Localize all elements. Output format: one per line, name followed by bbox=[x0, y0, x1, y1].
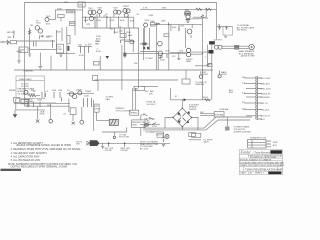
wire v3 drop4 bbox=[133, 17, 135, 28]
svg-text:450 WVDC: 450 WVDC bbox=[237, 30, 248, 32]
wire reverb vert2 bbox=[178, 24, 180, 31]
ground cathode bbox=[28, 52, 31, 57]
svg-text:RED-BLK: RED-BLK bbox=[261, 83, 271, 85]
wire AC line1 bbox=[143, 117, 252, 128]
wire grid stop bbox=[30, 28, 57, 49]
capacitor filter2 bbox=[225, 26, 228, 30]
svg-text:SW: SW bbox=[76, 144, 79, 146]
tube V3D bbox=[124, 13, 128, 17]
svg-text:.01: .01 bbox=[45, 91, 49, 93]
wire title div2 bbox=[276, 167, 278, 172]
wire tone link vertical bbox=[74, 13, 76, 36]
wire driver vert bbox=[185, 28, 187, 48]
wire input stage drop bbox=[18, 48, 20, 61]
svg-text:SLO-BLO: SLO-BLO bbox=[147, 104, 156, 106]
wire bridge bottom bbox=[181, 127, 183, 130]
resistor on grid vertical bbox=[29, 30, 31, 34]
wire trem row bbox=[14, 102, 70, 104]
svg-text:100K: 100K bbox=[120, 20, 125, 22]
node mixer box bbox=[120, 34, 126, 38]
wire hum bal in bbox=[200, 113, 214, 115]
capacitor C mid bbox=[123, 53, 126, 57]
svg-text:OUTPUT MEASURED AT SPKR TERMIN: OUTPUT MEASURED AT SPKR TERMINAL. 8 OHM bbox=[11, 165, 67, 168]
wire 6V6 out bbox=[191, 53, 203, 55]
node small box mid bbox=[93, 76, 98, 81]
svg-text:10K: 10K bbox=[119, 31, 123, 33]
svg-text:SPKR: SPKR bbox=[221, 74, 227, 76]
wire bottom-left border bbox=[25, 105, 70, 107]
component power switch bbox=[144, 114, 154, 120]
svg-text:.022: .022 bbox=[86, 24, 91, 26]
wire footsw main bbox=[100, 142, 171, 144]
wire title rule2 bbox=[239, 157, 282, 159]
wire grid stop b bbox=[38, 35, 40, 39]
svg-text:100K: 100K bbox=[46, 24, 51, 26]
svg-text:1500: 1500 bbox=[165, 50, 170, 52]
svg-text:JACKS 8 OHM: JACKS 8 OHM bbox=[241, 55, 255, 58]
wire T3 stub4 bbox=[244, 93, 256, 95]
svg-text:.02: .02 bbox=[105, 14, 109, 16]
svg-text:SW: SW bbox=[200, 112, 203, 114]
svg-text:250K: 250K bbox=[126, 32, 131, 34]
node title border bbox=[239, 150, 282, 175]
svg-text:GRN-BLK: GRN-BLK bbox=[261, 97, 271, 99]
wire footsw circle drop bbox=[113, 132, 115, 136]
svg-text:AC 117V: AC 117V bbox=[140, 148, 149, 151]
resistor reverb line bbox=[156, 23, 160, 24]
wire trem verticals up bbox=[68, 99, 70, 113]
wire v3 link bbox=[121, 11, 123, 14]
resistor B+ drop2 bbox=[206, 8, 212, 10]
svg-text:TREBLE: TREBLE bbox=[67, 11, 76, 13]
svg-text:GRN: GRN bbox=[273, 142, 278, 144]
capacitor coupling bbox=[106, 16, 108, 19]
component switch bbox=[152, 123, 156, 125]
wire mid box drop bbox=[99, 56, 101, 70]
wire title rule5 bbox=[239, 166, 282, 168]
tube V1 second stage bbox=[45, 18, 49, 22]
svg-text:SPEED: SPEED bbox=[9, 90, 17, 92]
wire footsw fan bbox=[86, 141, 90, 145]
node speaker connector box bbox=[248, 140, 267, 149]
wire rev mix vert1 bbox=[143, 28, 145, 60]
node mid box left bbox=[94, 61, 100, 65]
svg-text:REVERB: REVERB bbox=[140, 43, 149, 45]
tube V2C bbox=[98, 10, 102, 14]
svg-text:GRN 6.3V: GRN 6.3V bbox=[261, 93, 271, 95]
wire rev mix vert3 bbox=[168, 24, 170, 70]
svg-text:7025: 7025 bbox=[36, 23, 41, 25]
svg-text:56K: 56K bbox=[149, 94, 153, 96]
svg-text:TREM: TREM bbox=[85, 91, 91, 93]
svg-text:AC SW: AC SW bbox=[143, 121, 150, 124]
tube V3A bbox=[114, 10, 118, 14]
svg-text:250K: 250K bbox=[57, 49, 62, 51]
svg-text:.047: .047 bbox=[46, 37, 51, 39]
wire hum bal in2 bbox=[200, 115, 214, 117]
svg-text:1N4003: 1N4003 bbox=[189, 109, 197, 111]
wire title rule3 bbox=[239, 160, 282, 162]
capacitor deathcap bbox=[162, 132, 165, 142]
svg-text:220K: 220K bbox=[161, 21, 166, 23]
resistor 6V6 grid2 bbox=[166, 54, 168, 58]
wire speed drop2 bbox=[135, 88, 137, 110]
svg-text:CPLR: CPLR bbox=[94, 109, 100, 111]
node title black box bottom bbox=[268, 172, 281, 175]
svg-text:BLK: BLK bbox=[261, 119, 266, 121]
transformer T3 bumps bbox=[255, 76, 258, 119]
component fuse bbox=[145, 125, 151, 129]
resistor row1 bbox=[128, 34, 132, 36]
svg-text:470K: 470K bbox=[110, 20, 115, 22]
wire title rule4 bbox=[239, 163, 282, 165]
resistor trem vert bbox=[41, 92, 43, 98]
svg-text:INPUT: INPUT bbox=[0, 42, 7, 44]
svg-text:BLK: BLK bbox=[273, 145, 278, 147]
wire speaker line1 bbox=[222, 45, 249, 47]
svg-text:12AX7: 12AX7 bbox=[76, 89, 83, 92]
junction dots misc bbox=[156, 24, 203, 101]
tube V5 reverb driver bbox=[186, 15, 190, 19]
svg-text:REV: REV bbox=[151, 21, 156, 23]
wire OT bottom bbox=[208, 62, 212, 64]
wire reverb verticals bbox=[170, 24, 172, 31]
svg-text:5. ALL VOLTAGES DC 20%: 5. ALL VOLTAGES DC 20% bbox=[11, 159, 41, 162]
svg-text:DATE: DATE bbox=[241, 172, 247, 175]
wire opto drop bbox=[97, 112, 110, 120]
wire v3 drops bbox=[113, 14, 115, 17]
wire pi vert2 bbox=[157, 54, 159, 70]
wire vert c bbox=[129, 28, 131, 40]
wire vol long vertical bbox=[66, 27, 68, 70]
svg-text:FUSE: FUSE bbox=[143, 126, 149, 128]
resistor hang1 bbox=[85, 17, 87, 22]
wire v4 vert bbox=[155, 24, 157, 70]
transformer T3 winding bbox=[256, 76, 258, 120]
wire T3 stub8 bbox=[246, 115, 256, 117]
node vib channel label box bbox=[78, 2, 85, 7]
wire B+ right bbox=[182, 99, 211, 101]
wire reverb bus bbox=[150, 23, 202, 25]
svg-text:470K: 470K bbox=[96, 51, 101, 53]
wire top border bbox=[25, 3, 217, 107]
wire title rule1 bbox=[239, 153, 282, 155]
wire intensity top bbox=[140, 115, 142, 120]
tube V4A recovery bbox=[158, 41, 163, 46]
capacitor C3 electrolytic bbox=[67, 46, 69, 51]
resistor chain b bbox=[33, 102, 35, 108]
capacitor fs2 bbox=[123, 142, 126, 147]
svg-text:7025: 7025 bbox=[97, 7, 102, 9]
svg-text:YEL-BLK: YEL-BLK bbox=[261, 109, 270, 111]
svg-text:1M: 1M bbox=[30, 25, 33, 27]
svg-text:TWIN REVERB AA769 AMP: TWIN REVERB AA769 AMP bbox=[245, 167, 283, 171]
resistor mid3 bbox=[88, 46, 90, 53]
wire tone row verticals bbox=[113, 28, 115, 34]
wire line132 bbox=[145, 131, 163, 133]
wire row h bbox=[125, 41, 136, 43]
wire T3 stub1 bbox=[244, 77, 256, 79]
wire drop 110 bbox=[109, 17, 111, 28]
wire drop 107 bbox=[106, 19, 108, 28]
svg-text:.02: .02 bbox=[136, 14, 140, 16]
svg-text:ON SW: ON SW bbox=[105, 150, 112, 152]
transformer output T1 core bbox=[209, 41, 215, 44]
resistor R2 bbox=[13, 35, 15, 38]
wire v2b cathode bbox=[99, 14, 101, 18]
node vib jack box bbox=[70, 108, 76, 115]
svg-text:PAN: PAN bbox=[106, 98, 111, 101]
capacitor rev mix2 bbox=[147, 47, 149, 50]
node fs dot2 bbox=[124, 143, 125, 144]
wire mid bus y80 bbox=[95, 79, 178, 81]
svg-text:4. ALL CAPACITORS 600V: 4. ALL CAPACITORS 600V bbox=[11, 155, 40, 158]
wire speaker line2 bbox=[222, 47, 249, 49]
node opto box bbox=[94, 104, 99, 112]
svg-text:BLK 115V: BLK 115V bbox=[261, 116, 271, 118]
node intensity box bbox=[132, 120, 145, 128]
svg-text:PAIR: PAIR bbox=[186, 60, 191, 63]
ground trem X2 bbox=[72, 122, 75, 125]
resistor line132 bbox=[150, 131, 154, 133]
svg-text:470: 470 bbox=[205, 18, 209, 20]
resistor chain a bbox=[27, 102, 29, 108]
svg-text:VOLTAGES READ WITH VTVM AND MA: VOLTAGES READ WITH VTVM AND MAY VARY 20% bbox=[240, 161, 284, 164]
svg-text:TO REV: TO REV bbox=[145, 58, 153, 60]
resistor speaker2 bbox=[235, 48, 239, 50]
svg-text:.02: .02 bbox=[63, 113, 67, 115]
svg-text:FUSE 2A: FUSE 2A bbox=[146, 118, 155, 121]
ground footsw bbox=[101, 143, 104, 148]
wire trio drop bbox=[84, 53, 86, 70]
svg-text:470K: 470K bbox=[64, 2, 69, 4]
wire row y46 bbox=[78, 45, 92, 47]
wire rev mix vert2 bbox=[149, 28, 151, 50]
node rev mix box bbox=[164, 34, 169, 37]
component fuse circle bbox=[144, 124, 149, 126]
wire drop bbox=[50, 56, 52, 70]
svg-text:SPEAKER PLUG: SPEAKER PLUG bbox=[250, 137, 266, 140]
resistor jack2 bbox=[219, 71, 221, 75]
wire V2 feed bbox=[82, 3, 84, 18]
tube V8 trem c bbox=[78, 91, 82, 95]
node speed pot box bbox=[130, 110, 139, 115]
svg-text:220K: 220K bbox=[57, 8, 62, 10]
svg-text:10M: 10M bbox=[26, 105, 30, 107]
svg-text:220K: 220K bbox=[160, 60, 165, 62]
wire row y28 bbox=[83, 27, 140, 29]
ground OT bbox=[207, 64, 210, 66]
svg-text:PILOT: PILOT bbox=[156, 134, 163, 136]
node plug box bbox=[189, 133, 196, 137]
wire trem h bbox=[142, 86, 158, 88]
wire plate bus bbox=[55, 9, 82, 11]
svg-text:3.3M: 3.3M bbox=[148, 15, 153, 17]
svg-text:7025: 7025 bbox=[144, 20, 149, 22]
wire enclosure bottom bbox=[16, 99, 45, 110]
node small box row bbox=[130, 41, 134, 44]
wire trem drop2 bbox=[50, 104, 52, 119]
svg-text:470K: 470K bbox=[79, 55, 84, 57]
tube V3A2 bbox=[117, 10, 121, 14]
wire mixer stub bbox=[119, 26, 121, 34]
wire T3 right stubs bbox=[257, 78, 262, 119]
tube V4 reverb recovery bbox=[144, 23, 148, 27]
svg-text:450V: 450V bbox=[203, 97, 208, 99]
wire cap feed bbox=[143, 26, 145, 43]
svg-text:SCHEM 125P23B: SCHEM 125P23B bbox=[234, 132, 251, 134]
node input jack box bbox=[10, 41, 16, 44]
wire plug line bbox=[189, 139, 201, 141]
node pilot lamp bbox=[165, 135, 169, 139]
resistor trem r2 bbox=[59, 92, 61, 98]
wire v3 drop3 bbox=[127, 17, 129, 28]
wire title rule6 bbox=[239, 170, 282, 172]
ground trem X bbox=[36, 120, 39, 123]
svg-text:RED 410V: RED 410V bbox=[261, 88, 271, 90]
svg-text:10M: 10M bbox=[58, 90, 62, 92]
resistor trem3 bbox=[91, 98, 93, 107]
tube V1A bbox=[35, 26, 39, 30]
wire 6V6 left bbox=[170, 51, 186, 53]
component switch slant2 bbox=[145, 119, 149, 122]
resistor reverb2 bbox=[178, 27, 180, 31]
wire opto left vertical bbox=[93, 100, 95, 131]
svg-text:4.7K: 4.7K bbox=[143, 8, 148, 10]
resistor trem input bbox=[28, 94, 36, 96]
ground arrow mid bbox=[106, 56, 110, 59]
node sw box bbox=[192, 133, 201, 137]
resistor mid2 bbox=[84, 46, 86, 53]
wire rev mix h bbox=[140, 51, 158, 53]
wire cap gnd bbox=[56, 53, 75, 55]
wire trem zig line bbox=[36, 95, 40, 97]
svg-text:470: 470 bbox=[172, 56, 176, 58]
ground rev mix bbox=[159, 56, 162, 59]
svg-text:HUM BAL: HUM BAL bbox=[220, 108, 230, 111]
wire hum bal gnd bbox=[226, 117, 228, 127]
svg-text:100K: 100K bbox=[56, 31, 61, 33]
resistor screen bbox=[201, 15, 203, 19]
wire drop 97 bbox=[96, 14, 98, 28]
svg-text:SPKR: SPKR bbox=[202, 74, 208, 76]
diode D1 bbox=[178, 112, 181, 115]
capacitor reverb bbox=[167, 22, 169, 25]
svg-text:125V: 125V bbox=[152, 126, 157, 128]
wire mixer v2 bbox=[132, 40, 134, 52]
svg-text:RED: RED bbox=[229, 92, 234, 94]
node ext jack1 bbox=[199, 75, 202, 78]
resistor speaker1 bbox=[235, 45, 239, 47]
node footswitch plug bbox=[90, 140, 100, 146]
ground NFB bbox=[38, 53, 42, 69]
svg-text:56K: 56K bbox=[134, 63, 138, 65]
svg-text:1500: 1500 bbox=[96, 20, 101, 22]
tube V8 trem a bbox=[69, 92, 73, 96]
svg-text:ON SW: ON SW bbox=[121, 150, 128, 152]
junction dots bus bbox=[85, 17, 129, 18]
wire mid line 102.9 bbox=[20, 102, 56, 104]
diode D3 bbox=[178, 120, 181, 123]
tube V4B recovery bbox=[158, 51, 162, 55]
tube V8 trem b bbox=[72, 94, 76, 98]
node filter box bbox=[223, 27, 233, 35]
capacitor rev mix1 bbox=[143, 47, 145, 50]
svg-text:Fender: Fender bbox=[240, 151, 252, 155]
wire speed drops bbox=[132, 88, 134, 110]
node hum balance box bbox=[214, 112, 224, 118]
resistor jack1 bbox=[200, 71, 202, 74]
resistor R4 bbox=[52, 40, 54, 48]
node trem box left bbox=[14, 97, 20, 102]
svg-text:20: 20 bbox=[218, 24, 221, 26]
ground row bbox=[123, 54, 126, 58]
svg-text:BAL: BAL bbox=[135, 88, 140, 91]
wire mixer h bbox=[120, 39, 133, 41]
tube V3C bbox=[126, 9, 130, 13]
wire topright cap feed bbox=[217, 26, 232, 28]
svg-text:SPEED: SPEED bbox=[130, 113, 138, 115]
wire connector leads bbox=[266, 141, 271, 147]
transformer output secondary core bbox=[209, 50, 214, 54]
wire ac corner up bbox=[169, 88, 171, 95]
svg-text:CHANNEL: CHANNEL bbox=[24, 69, 35, 72]
resistor hang2 bbox=[94, 17, 96, 28]
svg-text:100K: 100K bbox=[84, 20, 89, 22]
diode arrow bbox=[184, 98, 187, 101]
wire mid vertical bbox=[121, 45, 123, 90]
svg-text:.003: .003 bbox=[180, 26, 185, 28]
svg-text:CHANNEL: CHANNEL bbox=[24, 100, 35, 103]
tube V2B bbox=[91, 10, 95, 14]
wire input grid bbox=[16, 40, 55, 42]
wire arrow drop bbox=[14, 110, 16, 114]
svg-text:1500: 1500 bbox=[130, 21, 135, 23]
wire reverb vert3 bbox=[191, 24, 193, 28]
capacitor trem bbox=[45, 93, 47, 97]
svg-text:UNLESS OTHERWISE NOTED. VALUES: UNLESS OTHERWISE NOTED. VALUES IN OHMS bbox=[16, 144, 72, 147]
wire v2 cathodes bbox=[89, 15, 91, 18]
svg-text:100K: 100K bbox=[37, 100, 42, 102]
svg-text:250K: 250K bbox=[132, 125, 137, 127]
note stamp bbox=[1, 169, 22, 171]
node ac bal box bbox=[134, 86, 145, 90]
node title black box top bbox=[270, 150, 282, 153]
svg-text:250K: 250K bbox=[40, 114, 45, 116]
node diamond dots bbox=[172, 108, 192, 128]
svg-text:BLU 410V: BLU 410V bbox=[261, 78, 271, 80]
svg-text:.1: .1 bbox=[204, 56, 207, 58]
svg-text:100K: 100K bbox=[172, 27, 177, 29]
node tone network box bbox=[58, 14, 64, 17]
ground deathcap bbox=[162, 144, 165, 146]
wire T3 stub3 bbox=[246, 88, 256, 90]
wire signal bus mid bbox=[83, 16, 134, 18]
svg-text:TUBE CHART: TUBE CHART bbox=[19, 78, 33, 81]
ground 6V6 bbox=[177, 52, 180, 59]
wire trem feed bbox=[97, 80, 99, 91]
svg-text:2. READINGS TAKEN WITH VTVM.: 2. READINGS TAKEN WITH VTVM. AMPLIFIER O… bbox=[11, 148, 82, 151]
capacitor pi out bbox=[190, 35, 192, 38]
resistor input stage tick bbox=[17, 50, 22, 52]
svg-text:/ Twin Reverb: / Twin Reverb bbox=[252, 150, 271, 154]
svg-text:68K 2W: 68K 2W bbox=[7, 32, 14, 34]
wire coupling bbox=[46, 35, 53, 37]
resistor 6V6 grid1 bbox=[161, 54, 163, 58]
svg-text:V4: V4 bbox=[67, 90, 70, 92]
svg-text:BASS: BASS bbox=[70, 22, 76, 25]
wire mid bus y70 bbox=[14, 69, 213, 71]
